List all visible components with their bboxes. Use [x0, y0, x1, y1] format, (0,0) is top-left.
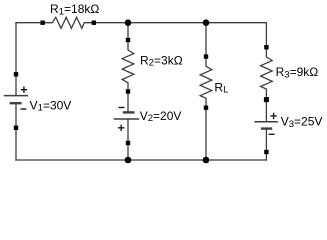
svg-text:V1=30V: V1=30V: [30, 98, 72, 113]
svg-text:V3=25V: V3=25V: [281, 115, 323, 130]
svg-text:R1=18kΩ: R1=18kΩ: [50, 2, 99, 17]
svg-text:R3=9kΩ: R3=9kΩ: [276, 65, 319, 80]
svg-text:R2=3kΩ: R2=3kΩ: [140, 53, 183, 68]
svg-text:V2=20V: V2=20V: [140, 109, 182, 124]
